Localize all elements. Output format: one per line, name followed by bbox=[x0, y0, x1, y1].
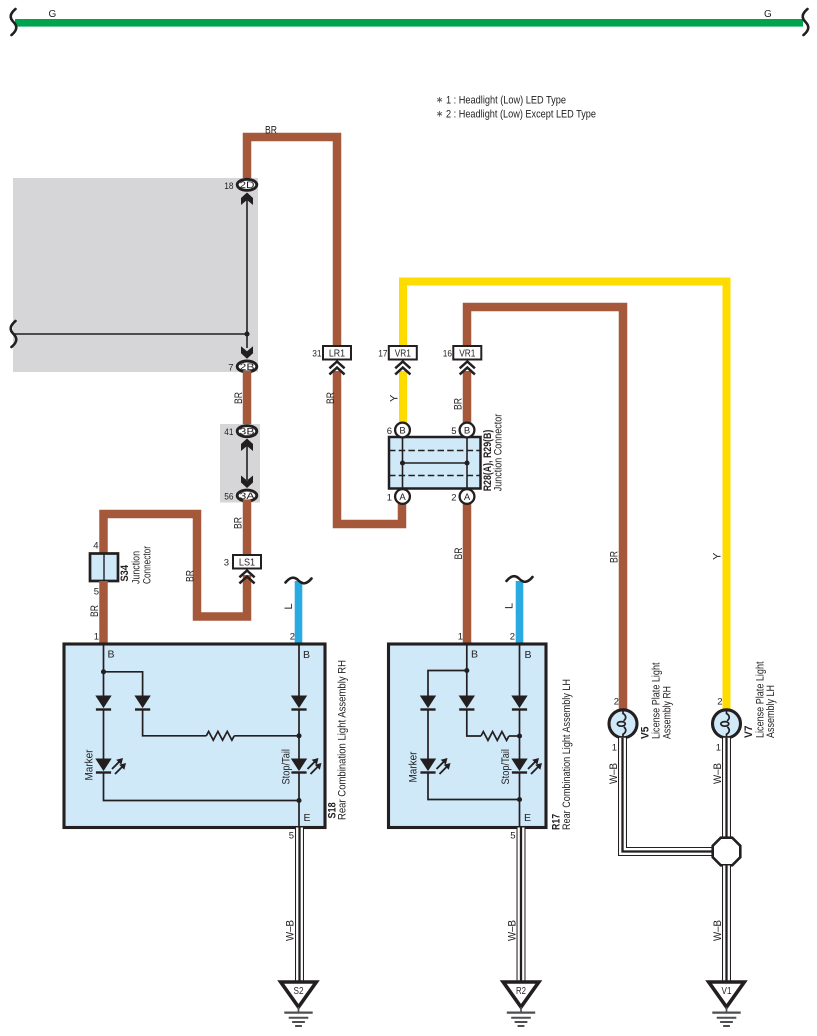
svg-text:Marker: Marker bbox=[408, 751, 420, 782]
junction dot left bbox=[400, 460, 405, 465]
svg-text:BR: BR bbox=[453, 547, 465, 559]
svg-text:S34: S34 bbox=[119, 564, 131, 581]
right cut mark of bus G bbox=[803, 9, 809, 35]
svg-text:2: 2 bbox=[290, 632, 295, 643]
chevron of LR1 bbox=[329, 362, 344, 375]
wire BR from VR1-16 over to V5 bbox=[467, 307, 623, 710]
wire D3 to LED S18 bbox=[298, 709, 300, 761]
svg-text:V1: V1 bbox=[722, 986, 732, 997]
pin 1 A terminal bbox=[395, 489, 410, 504]
chevron of LS1 bbox=[239, 571, 254, 584]
svg-text:S2: S2 bbox=[294, 986, 304, 997]
svg-text:31: 31 bbox=[312, 349, 321, 360]
wire resistor to stop line S18 bbox=[234, 735, 299, 737]
svg-text:1: 1 bbox=[387, 493, 392, 504]
wire BR from LS1 down-left to junction connector S34 bbox=[104, 514, 248, 617]
svg-text:R2: R2 bbox=[516, 986, 526, 997]
svg-text:Y: Y bbox=[712, 552, 724, 560]
ground R2 bbox=[503, 982, 539, 1026]
branch wire to left diode R17 bbox=[428, 671, 467, 698]
marker LED R17 bbox=[420, 758, 451, 774]
svg-text:2: 2 bbox=[717, 697, 722, 708]
svg-text:B: B bbox=[525, 649, 532, 661]
wire inside shield from 2D to 2B bbox=[246, 199, 248, 348]
wire BR from 3A to LS1 bbox=[243, 500, 252, 556]
arrow into 2B bbox=[241, 346, 253, 359]
svg-text:Marker: Marker bbox=[84, 749, 96, 780]
ground bus bar G (green) bbox=[15, 19, 803, 27]
svg-text:Junction Connector: Junction Connector bbox=[493, 414, 505, 492]
internal link wire bbox=[403, 462, 468, 464]
connector 2B bbox=[237, 361, 257, 373]
wire BR from connector 2D up over to connector LR1 bbox=[247, 137, 337, 347]
svg-text:VR1: VR1 bbox=[459, 348, 475, 360]
wire D1 to marker LED R17 bbox=[427, 709, 429, 761]
svg-text:W–B: W–B bbox=[608, 763, 620, 784]
svg-text:7: 7 bbox=[228, 363, 233, 374]
wire BR from 2B to 3B bbox=[243, 371, 252, 426]
wire BR from S34 to S18 pin 1 bbox=[99, 581, 108, 644]
diode D2 R17 bbox=[459, 696, 475, 710]
junction dot resistor R17 bbox=[517, 733, 522, 738]
internal dashed bus upper bbox=[389, 450, 481, 452]
stop/tail LED S18 bbox=[291, 758, 322, 774]
svg-text:B: B bbox=[303, 649, 310, 661]
pin 6 B terminal bbox=[395, 423, 410, 438]
connector 3B bbox=[237, 426, 257, 438]
svg-text:18: 18 bbox=[224, 181, 233, 192]
svg-text:BR: BR bbox=[609, 551, 621, 563]
wire stop LED to E R17 bbox=[519, 773, 521, 827]
conductor from B2 R17 bbox=[519, 644, 521, 697]
internal wire left vertical bbox=[402, 436, 404, 490]
wire D1 to marker LED S18 bbox=[103, 709, 105, 761]
svg-text:5: 5 bbox=[451, 426, 456, 437]
diode D2 S18 bbox=[134, 696, 150, 710]
svg-text:1: 1 bbox=[94, 632, 99, 643]
junction dot inside shield bbox=[244, 331, 249, 336]
svg-text:2D: 2D bbox=[240, 180, 255, 191]
license plate light bulb V5 bbox=[609, 710, 637, 738]
note *1 star bbox=[437, 97, 442, 103]
ground V1 bbox=[709, 982, 745, 1026]
svg-text:BR: BR bbox=[89, 605, 101, 617]
note *2 star bbox=[437, 111, 442, 117]
svg-text:1: 1 bbox=[458, 632, 463, 643]
marker LED S18 bbox=[95, 758, 126, 774]
wire marker LED to bottom bus R17 bbox=[428, 773, 520, 800]
wire Y from VR1-17 chevron to junction connector pin 6B bbox=[399, 371, 407, 424]
svg-text:W–B: W–B bbox=[712, 920, 724, 941]
shield box of wire harness (gray) bbox=[13, 178, 258, 372]
connector VR1 pin 16 bbox=[453, 346, 481, 360]
conductor from B2 S18 bbox=[298, 644, 300, 697]
svg-text:W–B: W–B bbox=[285, 920, 297, 941]
svg-text:E: E bbox=[304, 812, 311, 824]
pin 2 A terminal bbox=[460, 489, 475, 504]
svg-text:Y: Y bbox=[389, 394, 401, 402]
junction dot right bbox=[464, 460, 469, 465]
wire BR from VR1-16 chevron to junction connector pin 5B bbox=[463, 371, 472, 424]
internal dashed bus lower bbox=[389, 475, 481, 477]
wire D2 to resistor S18 bbox=[143, 709, 207, 736]
internal wire right vertical bbox=[466, 436, 468, 490]
svg-text:W–B: W–B bbox=[712, 763, 724, 784]
svg-text:B: B bbox=[471, 649, 478, 661]
svg-text:B: B bbox=[464, 425, 470, 436]
svg-text:BR: BR bbox=[233, 392, 245, 404]
left cut mark on shield wire bbox=[11, 321, 17, 347]
svg-text:3B: 3B bbox=[240, 427, 255, 438]
wire W-B from S18 to ground S2 bbox=[295, 828, 304, 983]
svg-text:6: 6 bbox=[387, 426, 392, 437]
svg-text:BR: BR bbox=[453, 398, 465, 410]
wire BR from LR1 chevron down to junction connector pin 1A bbox=[337, 371, 402, 524]
junction dot bottom R17 bbox=[517, 797, 522, 802]
wire D3 to LED R17 bbox=[519, 709, 521, 761]
svg-text:16: 16 bbox=[443, 349, 452, 360]
ground S2 bbox=[281, 982, 317, 1026]
diode D1 S18 bbox=[95, 696, 111, 710]
junction connector R28/R29 body bbox=[389, 437, 481, 489]
connector 2D bbox=[237, 179, 257, 191]
svg-text:Connector: Connector bbox=[142, 546, 154, 584]
branch wire to second diode S18 bbox=[104, 672, 143, 697]
diode D1 R17 bbox=[420, 696, 436, 710]
double arrow between 3B and 3A bbox=[246, 446, 248, 480]
wire marker LED to bottom bus S18 bbox=[104, 773, 300, 801]
svg-text:W–B: W–B bbox=[507, 920, 519, 941]
wire L into S18 pin 2 bbox=[295, 581, 303, 644]
rear combination light assembly RH body S18 bbox=[64, 644, 325, 828]
svg-text:VR1: VR1 bbox=[395, 348, 411, 360]
svg-text:Rear Combination Light Assembl: Rear Combination Light Assembly LH bbox=[561, 679, 573, 830]
svg-text:A: A bbox=[399, 492, 406, 503]
resistor S18 bbox=[206, 731, 234, 740]
svg-text:A: A bbox=[464, 492, 471, 503]
arrow into 2D bbox=[241, 193, 253, 206]
svg-text:BR: BR bbox=[265, 125, 277, 137]
svg-text:17: 17 bbox=[378, 349, 387, 360]
svg-text:1: 1 bbox=[716, 743, 721, 754]
chevron of VR1-16 bbox=[460, 362, 475, 375]
svg-text:LR1: LR1 bbox=[329, 348, 345, 360]
splice junction octagon bbox=[713, 838, 741, 866]
svg-text:5: 5 bbox=[510, 831, 515, 842]
wire W-B from R17 to ground R2 bbox=[517, 828, 526, 983]
connector LR1 bbox=[323, 346, 351, 360]
svg-text:BR: BR bbox=[325, 392, 337, 404]
svg-text:B: B bbox=[399, 425, 405, 436]
license plate light bulb V7 bbox=[713, 710, 741, 738]
svg-text:Stop/Tail: Stop/Tail bbox=[500, 749, 512, 785]
connector LS1 bbox=[233, 555, 261, 569]
svg-text:2: 2 bbox=[614, 697, 619, 708]
svg-text:5: 5 bbox=[94, 587, 99, 598]
svg-text:56: 56 bbox=[224, 492, 233, 503]
svg-text:L: L bbox=[283, 603, 295, 609]
wire W-B from V7 to junction bbox=[722, 738, 731, 838]
svg-text:Assembly LH: Assembly LH bbox=[765, 685, 777, 738]
left cut mark of bus G bbox=[11, 9, 17, 35]
rear combination light assembly LH body R17 bbox=[389, 644, 547, 828]
svg-text:Assembly RH: Assembly RH bbox=[662, 686, 674, 739]
chevron of VR1-17 bbox=[395, 362, 410, 375]
svg-text:1: 1 bbox=[612, 743, 617, 754]
wire L into R17 pin 2 bbox=[516, 581, 524, 644]
svg-text:41: 41 bbox=[224, 427, 233, 438]
svg-text:Rear Combination Light Assembl: Rear Combination Light Assembly RH bbox=[337, 660, 349, 820]
svg-text:1 : Headlight (Low) LED Type: 1 : Headlight (Low) LED Type bbox=[446, 95, 566, 107]
svg-text:2 : Headlight (Low) Except LED: 2 : Headlight (Low) Except LED Type bbox=[446, 109, 596, 121]
svg-text:5: 5 bbox=[289, 831, 294, 842]
svg-text:LS1: LS1 bbox=[239, 557, 255, 569]
resistor R17 bbox=[481, 732, 509, 741]
wire W-B from junction to ground V1 bbox=[722, 866, 731, 983]
conductor from B1 S18 bbox=[103, 644, 105, 697]
wire inside shield horizontal bbox=[13, 333, 247, 335]
svg-text:V7: V7 bbox=[743, 726, 755, 739]
open end cut mark of L wire LH bbox=[507, 576, 533, 582]
junction dot B1 S18 bbox=[101, 669, 106, 674]
svg-text:3: 3 bbox=[224, 558, 229, 569]
diode D3 R17 bbox=[511, 696, 527, 710]
svg-text:L: L bbox=[504, 603, 516, 609]
junction connector S34 bbox=[90, 554, 118, 582]
svg-text:BR: BR bbox=[185, 570, 197, 582]
junction dot B1 R17 bbox=[464, 668, 469, 673]
stop/tail LED R17 bbox=[511, 758, 542, 774]
conductor from B1 R17 bbox=[466, 644, 468, 697]
wire D2 to resistor R17 bbox=[467, 709, 481, 736]
connector VR1 pin 17 bbox=[389, 346, 417, 360]
pin 5 B terminal bbox=[460, 423, 475, 438]
svg-text:G: G bbox=[49, 9, 57, 20]
svg-text:4: 4 bbox=[93, 541, 98, 552]
wire resistor to stop line R17 bbox=[509, 735, 520, 737]
junction dot resistor S18 bbox=[296, 733, 301, 738]
svg-text:2: 2 bbox=[451, 493, 456, 504]
wire W-B from V5 to junction bbox=[623, 738, 714, 852]
wire BR from junction connector pin 2A down to R17 pin 1 bbox=[463, 500, 472, 644]
svg-text:B: B bbox=[108, 649, 115, 661]
wire stop LED to E S18 bbox=[298, 773, 300, 827]
open end cut mark of L wire RH bbox=[286, 578, 312, 584]
junction dot bottom S18 bbox=[296, 798, 301, 803]
connector 3A bbox=[237, 490, 257, 502]
svg-text:BR: BR bbox=[233, 517, 245, 529]
svg-text:Stop/Tail: Stop/Tail bbox=[281, 749, 293, 785]
wire Y from bus to VR1-17 and down right side to V7 bbox=[403, 282, 727, 711]
svg-text:E: E bbox=[524, 812, 531, 824]
svg-text:2: 2 bbox=[510, 632, 515, 643]
diode D3 S18 bbox=[291, 696, 307, 710]
shield box small (gray) bbox=[220, 424, 260, 503]
svg-text:G: G bbox=[764, 9, 772, 20]
